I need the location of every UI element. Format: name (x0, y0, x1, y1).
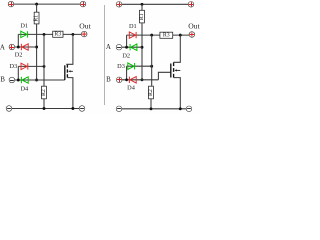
svg-text:R3: R3 (54, 32, 61, 38)
wire R1 bottom vertical line down to B row (right) (141, 23, 143, 80)
svg-text:Out: Out (79, 22, 91, 31)
node A junction (right) (125, 46, 128, 49)
terminal +V top-left (8, 1, 14, 7)
resistor R3 (53, 31, 63, 37)
wire bottom rail left (12, 108, 80, 110)
wire vertical B node to D3 anode (17, 66, 19, 80)
node D1 cathode / node X (right) (150, 34, 153, 37)
terminal -V bottom-left (right circuit) (116, 106, 122, 112)
diode D2 (red LED, blocking) (21, 44, 28, 50)
svg-text:B: B (106, 76, 111, 84)
node D1 cathode / node X (43, 33, 46, 36)
svg-text:D3: D3 (117, 63, 125, 70)
node B junction (right) (125, 78, 128, 81)
svg-text:D2: D2 (15, 51, 23, 58)
diode D2 (green LED, conducting) (right) (130, 44, 137, 50)
diode D3 (green LED, conducting) (right) (128, 63, 135, 69)
svg-text:R1: R1 (139, 13, 145, 20)
svg-text:R2: R2 (41, 89, 47, 96)
wire D1 row (right) (127, 34, 160, 36)
wire D3 row (18, 65, 44, 67)
transistor Q2 gate bar (right) (170, 64, 172, 78)
wire top rail left (14, 3, 81, 5)
resistor R1 (right) (139, 10, 145, 23)
terminal input A (-) (right) (116, 44, 122, 50)
diode D3 (red LED, blocking) (21, 63, 28, 69)
wire vertical A node to D1 anode (right) (126, 35, 128, 47)
wire R2 bottom lead (right) (150, 99, 152, 109)
node Y (R3 right / drain) (right) (179, 34, 182, 37)
wire A row (right) (122, 46, 142, 48)
terminal -V bottom-left (6, 106, 12, 112)
svg-text:D3: D3 (10, 63, 18, 70)
wire B row (right) (122, 79, 159, 81)
resistor R3 (right) (160, 32, 173, 38)
node R1 line / B row (right) (141, 78, 144, 81)
wire R3 to Out (63, 33, 82, 35)
transistor Q2 source lead (right) (174, 78, 181, 109)
wire node X vertical (right) (151, 35, 153, 86)
diode D1 (green LED, conducting) (21, 31, 28, 37)
transistor Q1 channel (dashed) (66, 64, 68, 77)
wire top rail right (122, 3, 189, 5)
terminal input B (+) (right) (116, 77, 122, 83)
node R1 line / A row (right) (141, 46, 144, 49)
terminal Out (+) (81, 31, 87, 37)
node A junction (17, 46, 20, 49)
node top rail to R1 (right) (141, 3, 144, 6)
terminal -V bottom-right (right circuit) (186, 106, 192, 112)
terminal input B (-) (9, 77, 15, 83)
svg-text:D2: D2 (122, 52, 130, 59)
wire R1 top lead (right) (141, 4, 143, 10)
diode D1 (red LED, blocking) (right) (129, 32, 136, 38)
wire R1 bottom vertical line down to B row (36, 24, 38, 80)
resistor R2 (right) (148, 86, 154, 99)
node R2 / bottom rail (right) (150, 107, 153, 110)
wire bottom rail right (122, 108, 187, 110)
node B junction (17, 79, 20, 82)
wire D1 row (18, 33, 52, 35)
terminal +V top-right (80, 1, 86, 7)
node D3 cathode / node X (43, 65, 46, 68)
wire D3 row (right) (127, 65, 152, 67)
wire A row (15, 46, 37, 48)
transistor Q1 drain lead (66, 34, 73, 64)
svg-text:R3: R3 (163, 33, 170, 39)
svg-text:D4: D4 (20, 85, 29, 92)
divider line between the two circuits (104, 5, 106, 105)
wire node X vertical (43, 34, 45, 86)
svg-text:Out: Out (188, 22, 200, 31)
terminal +V top-left (right circuit) (116, 2, 122, 8)
wire B row to gate riser (15, 79, 65, 81)
transistor Q2 drain lead (right) (174, 35, 181, 62)
node top rail to R1 (35, 3, 38, 6)
svg-text:R1: R1 (34, 15, 40, 22)
transistor Q1 gate bar (riser from B row) (64, 65, 66, 80)
svg-text:A: A (106, 43, 111, 51)
svg-text:R2: R2 (148, 89, 154, 96)
terminal -V bottom-right (79, 106, 85, 112)
transistor Q1 body arrow (68, 70, 73, 72)
node D3 cathode / node X (right) (150, 65, 153, 68)
svg-text:B: B (0, 75, 5, 83)
wire vertical B node to D3 anode (right) (126, 66, 128, 80)
diode D4 (green LED, conducting) (21, 77, 28, 83)
node R1 line / A row (35, 46, 38, 49)
svg-text:D1: D1 (129, 23, 137, 30)
wire vertical A node to D1 anode (17, 34, 19, 47)
node R2 / bottom rail (43, 107, 46, 110)
transistor Q2 gate lead (right) (158, 72, 170, 80)
resistor R2 (41, 86, 47, 99)
transistor Q1 source lead (67, 78, 73, 109)
svg-text:A: A (0, 43, 5, 51)
node source / bottom rail (71, 107, 74, 110)
node R1 line / B row (35, 79, 38, 82)
node source / bottom rail (right) (179, 107, 182, 110)
transistor Q2 channel (dashed) (right) (173, 62, 175, 77)
terminal Out (+) (right) (189, 32, 195, 38)
transistor Q2 body arrow (right) (174, 69, 180, 71)
svg-text:D1: D1 (20, 23, 28, 30)
resistor R1 (34, 12, 40, 24)
diode D4 (red LED, blocking) (right) (129, 77, 136, 83)
wire R3 to Out (right) (173, 34, 190, 36)
svg-text:D4: D4 (127, 84, 136, 91)
node Y (R3 right / drain) (71, 33, 74, 36)
wire R2 bottom lead (43, 99, 45, 109)
wire R1 top lead (36, 4, 38, 12)
terminal input A (+) (9, 44, 15, 50)
terminal +V top-right (right circuit) (188, 2, 194, 8)
